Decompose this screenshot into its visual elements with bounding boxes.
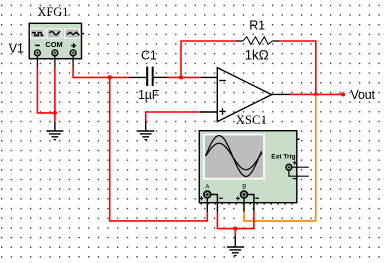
wire output node to scope channel B (orange) — [244, 94, 316, 220]
node Vout terminal dot — [341, 92, 345, 96]
ground GND3 — [227, 236, 244, 256]
wire op-amp output to Vout — [291, 93, 344, 95]
wire input net down to scope channel A — [110, 77, 208, 221]
svg-text:R1: R1 — [249, 19, 265, 33]
XFG1 triangle/sine button — [47, 28, 62, 38]
wire scope A- to ground node — [217, 212, 235, 229]
function generator XFG1 body — [29, 23, 81, 60]
node junction output — [314, 92, 318, 96]
wire V1 minus to ground node — [37, 67, 55, 113]
wire C1 to op-amp inverting input — [168, 76, 201, 78]
ground GND2 — [137, 122, 154, 140]
svg-text:1µF: 1µF — [138, 88, 160, 102]
XSC1 channel A pins — [199, 191, 222, 212]
svg-text:XSC1: XSC1 — [236, 113, 267, 127]
XFG1 sine button — [64, 28, 80, 38]
XSC1 right edge tick — [297, 138, 300, 140]
svg-text:C1: C1 — [141, 48, 157, 62]
XSC1 screen waveform 2 — [206, 143, 262, 170]
wire node to GND3 — [234, 229, 236, 237]
node junction scope ground — [233, 227, 237, 231]
XSC1 screen waveform 1 — [206, 136, 262, 177]
svg-text:COM: COM — [45, 40, 62, 49]
XFG1 plus pin — [70, 50, 76, 67]
node junction input net — [108, 75, 112, 79]
XSC1 screen — [203, 134, 265, 180]
XFG1 minus terminal label — [35, 44, 40, 46]
wire ground to op-amp non-inverting input — [146, 112, 201, 122]
svg-text:1kΩ: 1kΩ — [245, 47, 269, 62]
svg-text:Vout: Vout — [351, 88, 376, 102]
XFG1 COM pin — [52, 50, 58, 67]
wire feedback up to R1 — [181, 41, 236, 77]
XFG1 right edge tick — [82, 33, 85, 35]
XFG1 square-wave button — [30, 28, 45, 38]
node junction V1 ground — [53, 111, 57, 115]
XSC1 channel B pins — [236, 191, 259, 212]
wire V1 COM down to ground node — [54, 67, 56, 122]
op-amp U1 — [200, 68, 291, 122]
node junction feedback — [179, 75, 183, 79]
svg-text:XFG1: XFG1 — [37, 5, 68, 19]
XSC1 Ext Trig pin — [286, 161, 309, 179]
XFG1 plus terminal label — [71, 43, 76, 48]
wire R1 to output node — [279, 41, 316, 94]
oscilloscope XSC1 body — [199, 131, 296, 204]
resistor R1 — [236, 37, 279, 45]
svg-text:Ext Trig: Ext Trig — [271, 153, 295, 160]
svg-text:V1: V1 — [9, 42, 24, 56]
wire scope B- to ground node — [235, 212, 254, 229]
XFG1 minus pin — [34, 50, 40, 67]
svg-text:B: B — [242, 184, 246, 191]
ground GND1 — [46, 122, 63, 140]
wire V1 plus to C1 — [73, 67, 129, 77]
capacitor C1 — [129, 67, 169, 86]
